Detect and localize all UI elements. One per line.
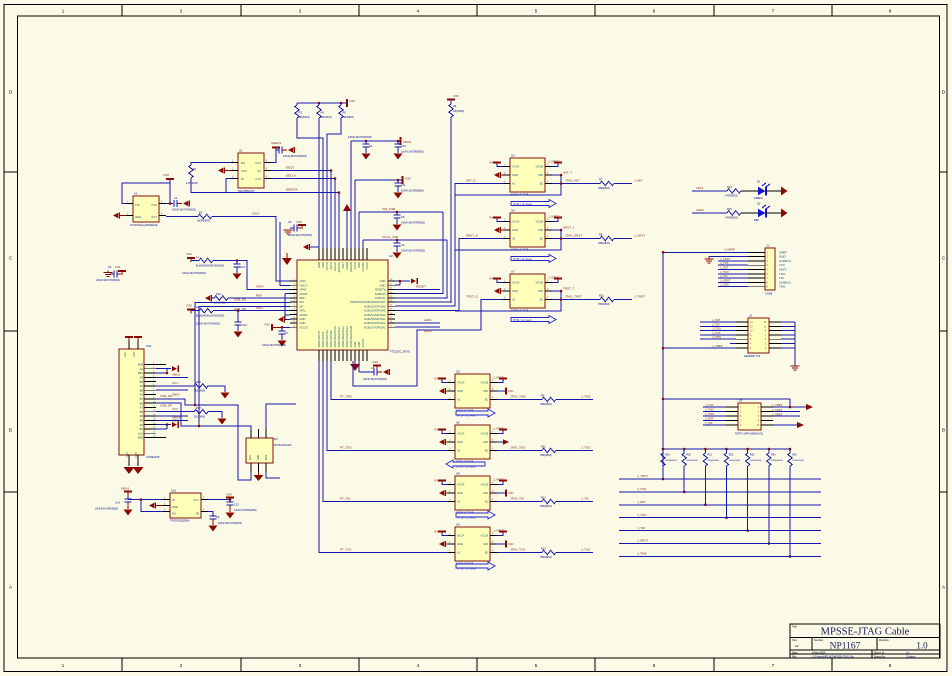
wire JTAG out U5: [497, 395, 542, 400]
svg-text:BLM18AG601SN1D(0603): BLM18AG601SN1D(0603): [196, 315, 225, 318]
wire PT_TCK: [319, 361, 448, 553]
svg-text:R17: R17: [196, 406, 201, 410]
wire J_VREF to J1: [663, 248, 748, 253]
svg-text:RED: RED: [754, 219, 759, 222]
level translator U3: [503, 154, 552, 197]
resistor R7: [598, 178, 614, 191]
svg-text:A1: A1: [512, 182, 516, 186]
svg-text:100nF/16V/X7R(0603): 100nF/16V/X7R(0603): [196, 323, 220, 326]
svg-text:100K(0603): 100K(0603): [771, 460, 783, 462]
svg-text:100nF/16V/X7R(0603): 100nF/16V/X7R(0603): [218, 522, 242, 525]
regulator U10: [163, 489, 208, 523]
svg-text:AGND: AGND: [300, 313, 308, 317]
svg-text:R25: R25: [792, 454, 797, 457]
wire J net U3: [614, 179, 643, 184]
svg-text:100K(0603): 100K(0603): [729, 460, 741, 462]
ground J2: [791, 366, 800, 370]
wire R23 drop: [746, 466, 749, 532]
wire PT_TDI: [323, 361, 448, 502]
power V3O U4: [489, 216, 503, 222]
svg-text:VCCB: VCCB: [481, 534, 489, 538]
svg-text:VCCA: VCCA: [512, 220, 520, 224]
svg-text:R4: R4: [321, 111, 325, 115]
svg-text:A: A: [9, 585, 12, 590]
svg-text:U7: U7: [511, 270, 515, 274]
svg-text:A: A: [942, 585, 945, 590]
power J_VREF U6: [493, 427, 507, 434]
wire J3 pin10: [773, 424, 797, 426]
resistor R4: [317, 103, 332, 119]
wire CN1 vbus pins low: [156, 421, 178, 429]
svg-text:J_TRST: J_TRST: [637, 474, 648, 478]
svg-text:10uF6.3V/X5R(0805): 10uF6.3V/X5R(0805): [234, 509, 257, 512]
svg-text:EECS: EECS: [286, 166, 294, 170]
wire EECS: [271, 170, 331, 172]
resistor R9: [540, 394, 556, 407]
wire J3 srst: [772, 408, 800, 417]
svg-text:ADBUS6/GPIOL2: ADBUS6/GPIOL2: [341, 326, 345, 348]
gnd arrow near U2 top pins: [303, 244, 319, 250]
wire J_TDO j3: [703, 408, 726, 412]
wire EEDATA: [226, 192, 339, 194]
svg-text:C8: C8: [371, 366, 375, 370]
svg-text:VBUS: VBUS: [121, 487, 129, 491]
svg-text:V3O: V3O: [405, 177, 412, 181]
svg-text:D2: D2: [757, 202, 761, 206]
svg-text:USB_DP: USB_DP: [160, 403, 172, 407]
capacitor C13: [233, 259, 246, 279]
power arrow D2: [781, 209, 788, 218]
svg-text:J_TDO: J_TDO: [637, 513, 647, 517]
svg-text:10K(0603): 10K(0603): [299, 116, 310, 119]
svg-text:TEST: TEST: [341, 262, 345, 269]
power V3O U6: [434, 428, 448, 434]
svg-text:OSCI: OSCI: [252, 212, 260, 216]
power flag V3O c11: [403, 176, 412, 184]
wire resistor rail: [663, 448, 790, 450]
svg-text:V3O: V3O: [508, 542, 514, 546]
svg-text:GREEN: GREEN: [754, 197, 763, 200]
capacitor C4: [348, 136, 373, 159]
wire J_TDO j1: [718, 270, 748, 274]
svg-text:R7: R7: [599, 178, 603, 182]
svg-text:R12: R12: [541, 496, 546, 500]
svg-text:J_INIT: J_INIT: [705, 417, 714, 421]
svg-text:J_SRST: J_SRST: [634, 234, 645, 238]
svg-text:R21: R21: [708, 454, 713, 457]
svg-text:V3O: V3O: [264, 323, 271, 327]
svg-text:LED1: LED1: [424, 318, 432, 322]
capacitor C2: [271, 147, 307, 163]
svg-text:C8: C8: [401, 215, 405, 219]
svg-text:TBR(0603): TBR(0603): [540, 505, 552, 508]
svg-text:J_TCK: J_TCK: [705, 403, 714, 407]
svg-text:C:\Project\NP1167\MPSSE-JTAG.S: C:\Project\NP1167\MPSSE-JTAG.Sch: [812, 655, 855, 658]
level translator U6: [448, 421, 497, 464]
svg-text:TRST_T: TRST_T: [563, 287, 575, 291]
svg-text:100nF/16V/X7R(0603): 100nF/16V/X7R(0603): [182, 272, 206, 275]
svg-text:GND: GND: [317, 262, 321, 268]
svg-text:File:: File:: [792, 655, 797, 658]
power V3O U3: [489, 161, 503, 167]
level translator U7: [503, 270, 552, 313]
svg-text:GND: GND: [380, 283, 386, 287]
svg-text:EECLK: EECLK: [286, 174, 296, 178]
svg-text:TBR(0603): TBR(0603): [540, 454, 552, 457]
svg-text:A1: A1: [512, 237, 516, 241]
wire J_VREF j2: [663, 344, 736, 348]
svg-text:(FTDI-> dir. level): (FTDI-> dir. level): [457, 415, 476, 418]
svg-text:100nF/16V/X7R(0603): 100nF/16V/X7R(0603): [348, 136, 372, 139]
svg-text:100nF/16V/X7R(0603): 100nF/16V/X7R(0603): [262, 344, 286, 347]
svg-text:JTAG_TDO: JTAG_TDO: [510, 446, 526, 450]
wire J_INIT j1: [718, 266, 748, 270]
diode array D3: [246, 429, 292, 472]
connector J3: [726, 399, 773, 436]
power arrow J3 pin10: [797, 422, 804, 428]
svg-text:R24: R24: [771, 454, 776, 457]
wire PT_TDO: [327, 361, 448, 451]
svg-text:GND: GND: [353, 341, 357, 347]
resistor R17 CC2: [156, 406, 227, 425]
svg-text:5K1(0603): 5K1(0603): [194, 390, 205, 393]
wire U2 gnd pins right: [395, 278, 417, 285]
svg-text:R5: R5: [343, 111, 347, 115]
connector CN1: [119, 341, 166, 466]
svg-text:VCCB: VCCB: [481, 483, 489, 487]
svg-text:470R(0603): 470R(0603): [725, 217, 738, 220]
svg-text:ACBUS0/GPIOH0: ACBUS0/GPIOH0: [349, 325, 353, 347]
svg-text:J_TMS: J_TMS: [720, 283, 729, 287]
svg-text:J_VREF: J_VREF: [724, 248, 735, 252]
dir connection U8: [497, 490, 514, 497]
svg-text:TRST_D: TRST_D: [466, 295, 479, 299]
capacitor C1: [166, 196, 196, 212]
wire R6 to pin: [450, 302, 452, 303]
ground CN1 bottom: [124, 467, 144, 474]
svg-text:B1: B1: [485, 500, 489, 504]
resistor R14: [725, 185, 741, 198]
wire J net U5: [556, 395, 593, 400]
power J_VREF U9: [493, 529, 507, 536]
svg-text:5K1(0603): 5K1(0603): [194, 415, 205, 418]
svg-text:RESET: RESET: [416, 285, 426, 289]
svg-text:VCC: VCC: [151, 203, 157, 207]
svg-text:V3O: V3O: [296, 220, 303, 224]
wire LED2 stub: [395, 327, 440, 333]
svg-text:100K(0603): 100K(0603): [686, 460, 698, 462]
resistor R15: [725, 207, 741, 220]
dir connection U6: [497, 439, 509, 444]
svg-text:B1: B1: [485, 551, 489, 555]
svg-text:R20: R20: [686, 454, 691, 457]
svg-text:GND: GND: [135, 215, 141, 219]
banner U5: [456, 409, 495, 418]
svg-text:VCCA: VCCA: [457, 483, 465, 487]
svg-text:SRST_D: SRST_D: [466, 234, 479, 238]
banner U3: [511, 200, 556, 208]
wire J_TMS j3: [703, 412, 726, 416]
svg-text:DIR: DIR: [538, 173, 543, 177]
svg-text:10uF6.3V/X5R(0805): 10uF6.3V/X5R(0805): [401, 190, 424, 193]
svg-text:GND: GND: [380, 279, 386, 283]
svg-text:GND: GND: [300, 317, 306, 321]
svg-text:VCCA: VCCA: [365, 262, 369, 270]
svg-text:SBU1: SBU1: [172, 393, 180, 397]
svg-text:FB: FB: [196, 512, 200, 516]
capacitor C14: [95, 499, 133, 516]
dir connection U9: [497, 541, 514, 548]
wire J net U6: [556, 446, 593, 451]
wire SRST_D: [395, 239, 503, 311]
svg-text:GND: GND: [457, 389, 463, 393]
wire J_TRST j1: [718, 257, 748, 261]
power flag VEECS: [271, 141, 281, 152]
wire TRI loop: [122, 183, 170, 204]
svg-text:B1: B1: [540, 298, 544, 302]
svg-text:Revision: Revision: [879, 638, 890, 642]
capacitor C5 cluster: [284, 220, 313, 237]
svg-text:USB_DN: USB_DN: [160, 394, 172, 398]
wire J2 right loop: [781, 322, 795, 366]
wire vertical trunk: [662, 251, 665, 479]
svg-text:V3O: V3O: [349, 99, 356, 103]
svg-text:DIR: DIR: [538, 289, 543, 293]
power arrow J3 vref: [806, 404, 813, 410]
svg-text:10K(0603): 10K(0603): [453, 110, 464, 113]
svg-text:TBR(0603): TBR(0603): [540, 556, 552, 559]
svg-text:ACBUS2/GPIOH6: ACBUS2/GPIOH6: [364, 304, 386, 308]
svg-text:100nF/16V/X7R(0603): 100nF/16V/X7R(0603): [288, 234, 312, 237]
svg-text:VCCA_USB: VCCA_USB: [382, 235, 398, 239]
svg-text:J_TMS: J_TMS: [637, 552, 647, 556]
svg-text:ADBUS1/TDI: ADBUS1/TDI: [321, 331, 325, 347]
wire LED1 stub: [395, 318, 440, 323]
svg-text:ACBUS6/GPIOH2: ACBUS6/GPIOH2: [364, 321, 386, 325]
svg-text:JTAG_TDI: JTAG_TDI: [510, 497, 524, 501]
power J_VREF U3: [548, 160, 562, 167]
svg-text:GND: GND: [300, 321, 306, 325]
svg-text:ADBUS5/GPIOL1: ADBUS5/GPIOL1: [337, 326, 341, 348]
svg-text:V3O: V3O: [163, 173, 170, 177]
svg-text:ADBUS4/GPIOL0: ADBUS4/GPIOL0: [333, 326, 337, 348]
wire J net U4: [614, 234, 645, 239]
svg-text:ACBUS3/GPIOH5: ACBUS3/GPIOH5: [364, 309, 386, 313]
wire JTAG out U3: [552, 179, 600, 185]
power J_VREF U5: [493, 376, 507, 383]
svg-text:EEDATA: EEDATA: [286, 188, 298, 192]
svg-text:Drawn By:: Drawn By:: [874, 655, 886, 658]
gnd arrow U2 agnd: [278, 294, 290, 323]
resistor R19: [661, 448, 677, 466]
svg-text:VBUS: VBUS: [172, 416, 180, 420]
svg-text:(FTDI-> dir. level): (FTDI-> dir. level): [513, 203, 532, 206]
resistor R11: [540, 445, 556, 458]
svg-text:10uF6.3V/X5R(0805): 10uF6.3V/X5R(0805): [401, 151, 424, 154]
svg-text:GND: GND: [512, 289, 518, 293]
power flag VBUS reg: [121, 487, 132, 500]
svg-text:2.2K(0603): 2.2K(0603): [186, 182, 198, 185]
svg-text:U10: U10: [171, 489, 177, 493]
svg-text:J_TMS: J_TMS: [705, 412, 714, 416]
svg-text:VCORE: VCORE: [361, 262, 365, 272]
resistor R13: [540, 547, 556, 560]
svg-text:R16: R16: [196, 380, 201, 384]
svg-text:DIR: DIR: [483, 389, 488, 393]
ground U7: [494, 288, 503, 294]
svg-text:GND: GND: [124, 351, 127, 357]
svg-text:VCCB: VCCB: [481, 432, 489, 436]
capacitor C3 cluster: [96, 265, 126, 282]
wire R19 drop: [662, 466, 665, 480]
svg-text:VPLL: VPLL: [256, 306, 264, 310]
svg-text:IN: IN: [172, 498, 175, 502]
level translator U8: [448, 472, 497, 515]
svg-text:PT_TCK: PT_TCK: [340, 548, 352, 552]
wire R6 down to U2 pin: [450, 117, 452, 303]
svg-text:10K(0603): 10K(0603): [343, 116, 354, 119]
wire VREGIN rail: [351, 140, 400, 142]
svg-text:ACBUS1: ACBUS1: [375, 296, 386, 300]
wire EECLK: [271, 178, 335, 180]
svg-text:100K(0603): 100K(0603): [792, 460, 804, 462]
resistor R10: [598, 294, 614, 307]
wire J_TDI j3: [703, 421, 726, 425]
wire D3 third pin: [266, 404, 296, 429]
svg-text:C15: C15: [234, 503, 239, 507]
wire JTAG out U4: [552, 234, 600, 240]
svg-text:GND: GND: [134, 452, 137, 458]
svg-text:R13: R13: [541, 547, 546, 551]
svg-text:100K(0603): 100K(0603): [750, 460, 762, 462]
svg-text:TBR(0603): TBR(0603): [598, 242, 610, 245]
svg-text:R6: R6: [453, 104, 457, 108]
svg-text:C10: C10: [401, 144, 406, 148]
wire bus J_SRST: [619, 539, 821, 544]
wire V18_USB: [359, 211, 443, 213]
svg-text:LED1: LED1: [696, 186, 704, 190]
wire VBUS to IN: [128, 496, 163, 501]
svg-text:PT_TMS: PT_TMS: [340, 395, 352, 399]
svg-text:Date:: Date:: [792, 651, 798, 654]
svg-text:J_TRST: J_TRST: [772, 408, 783, 412]
svg-text:VPHY: VPHY: [300, 288, 308, 292]
wire LED2: [692, 208, 727, 213]
svg-text:U5: U5: [456, 370, 460, 374]
resistor R5: [339, 103, 354, 119]
svg-text:PWRSAV#/ACBUS8/GPIOH7: PWRSAV#/ACBUS8/GPIOH7: [350, 300, 386, 304]
svg-text:TRI: TRI: [135, 203, 140, 207]
svg-text:DIR: DIR: [483, 542, 488, 546]
wire R22 drop: [725, 466, 728, 519]
wire bus J_TDI: [619, 526, 821, 531]
wire OSCO: [280, 222, 290, 285]
power arrow above U2 pins: [343, 204, 351, 248]
ground U8: [439, 490, 448, 496]
ground U1 VSS: [218, 167, 231, 173]
oscillator X1: [126, 192, 166, 228]
resistor R18 REF: [205, 292, 228, 305]
svg-text:10uF/6.3V/X5R(0805): 10uF/6.3V/X5R(0805): [95, 508, 118, 511]
dir connection U3: [455, 171, 572, 196]
capacitor C7: [262, 326, 289, 347]
svg-text:C14: C14: [115, 501, 120, 505]
svg-text:ADBUS0/TCK: ADBUS0/TCK: [317, 330, 321, 347]
svg-text:U4: U4: [511, 209, 515, 213]
svg-text:V3O: V3O: [186, 252, 193, 256]
svg-text:Size: Size: [792, 638, 798, 642]
svg-text:OUT: OUT: [193, 498, 199, 502]
svg-text:VPLL: VPLL: [300, 309, 307, 313]
svg-text:J_TDI: J_TDI: [705, 421, 713, 425]
svg-text:B: B: [9, 428, 12, 433]
svg-text:ACBUS0: ACBUS0: [375, 292, 386, 296]
svg-text:VCCB: VCCB: [536, 165, 544, 169]
wire J3 vref branch: [663, 399, 806, 408]
svg-text:VCCA: VCCA: [512, 281, 520, 285]
svg-text:J_TDO: J_TDO: [705, 408, 715, 412]
svg-text:VBUS: VBUS: [403, 140, 411, 144]
svg-text:EEDATA: EEDATA: [337, 262, 341, 273]
ground U4: [494, 227, 503, 233]
svg-text:J_TDI: J_TDI: [637, 526, 645, 530]
power flag V3O top: [347, 99, 356, 107]
banner U8: [456, 511, 495, 520]
svg-text:VCCIO: VCCIO: [325, 262, 329, 271]
svg-text:R23: R23: [750, 454, 755, 457]
svg-text:CLK: CLK: [256, 177, 262, 181]
resistor R2: [166, 211, 212, 223]
wire LED1: [692, 186, 727, 191]
wire R21 drop: [704, 466, 707, 506]
svg-text:VSS: VSS: [241, 169, 247, 173]
svg-text:V3O: V3O: [453, 94, 460, 98]
svg-text:1.0: 1.0: [916, 641, 928, 651]
svg-text:INIT_T: INIT_T: [563, 171, 572, 175]
wire J_TMS j2: [700, 335, 736, 339]
resistor R12: [540, 496, 556, 509]
wire J_SRST j1: [718, 278, 748, 282]
wire R25 drop: [789, 466, 792, 558]
svg-text:ADBUS7/GPIOL3: ADBUS7/GPIOL3: [345, 326, 349, 348]
svg-text:C9: C9: [216, 515, 220, 519]
svg-text:V3O: V3O: [508, 491, 514, 495]
svg-text:EIO1: EIO1: [250, 454, 252, 460]
resistor R23: [745, 448, 761, 466]
svg-text:C11: C11: [401, 183, 406, 187]
capacitor C8A: [393, 211, 426, 231]
wire JTAG out U7: [552, 295, 600, 301]
wire L1 to VPHY: [213, 261, 290, 290]
svg-text:(FTDI-> dir. level): (FTDI-> dir. level): [457, 568, 476, 571]
svg-text:R8: R8: [599, 233, 603, 237]
svg-text:DP: DP: [300, 304, 304, 308]
svg-text:GND: GND: [457, 491, 463, 495]
capacitor C10: [394, 140, 424, 160]
svg-text:ACBUS4/GPIOH4: ACBUS4/GPIOH4: [364, 313, 386, 317]
svg-text:NP1167: NP1167: [830, 642, 861, 652]
svg-text:PT_TDO: PT_TDO: [340, 446, 353, 450]
wire VCC rail 2: [355, 179, 402, 181]
svg-text:GND: GND: [133, 351, 136, 357]
wire USB_DN to U2: [195, 302, 290, 405]
wire VBUS cn1 low: [156, 416, 188, 421]
svg-text:8-May-2005: 8-May-2005: [812, 651, 826, 654]
svg-text:ADBUS3/TMS: ADBUS3/TMS: [329, 330, 333, 347]
svg-text:B1: B1: [540, 182, 544, 186]
svg-text:U1: U1: [239, 149, 243, 153]
wire J net U9: [556, 548, 593, 553]
